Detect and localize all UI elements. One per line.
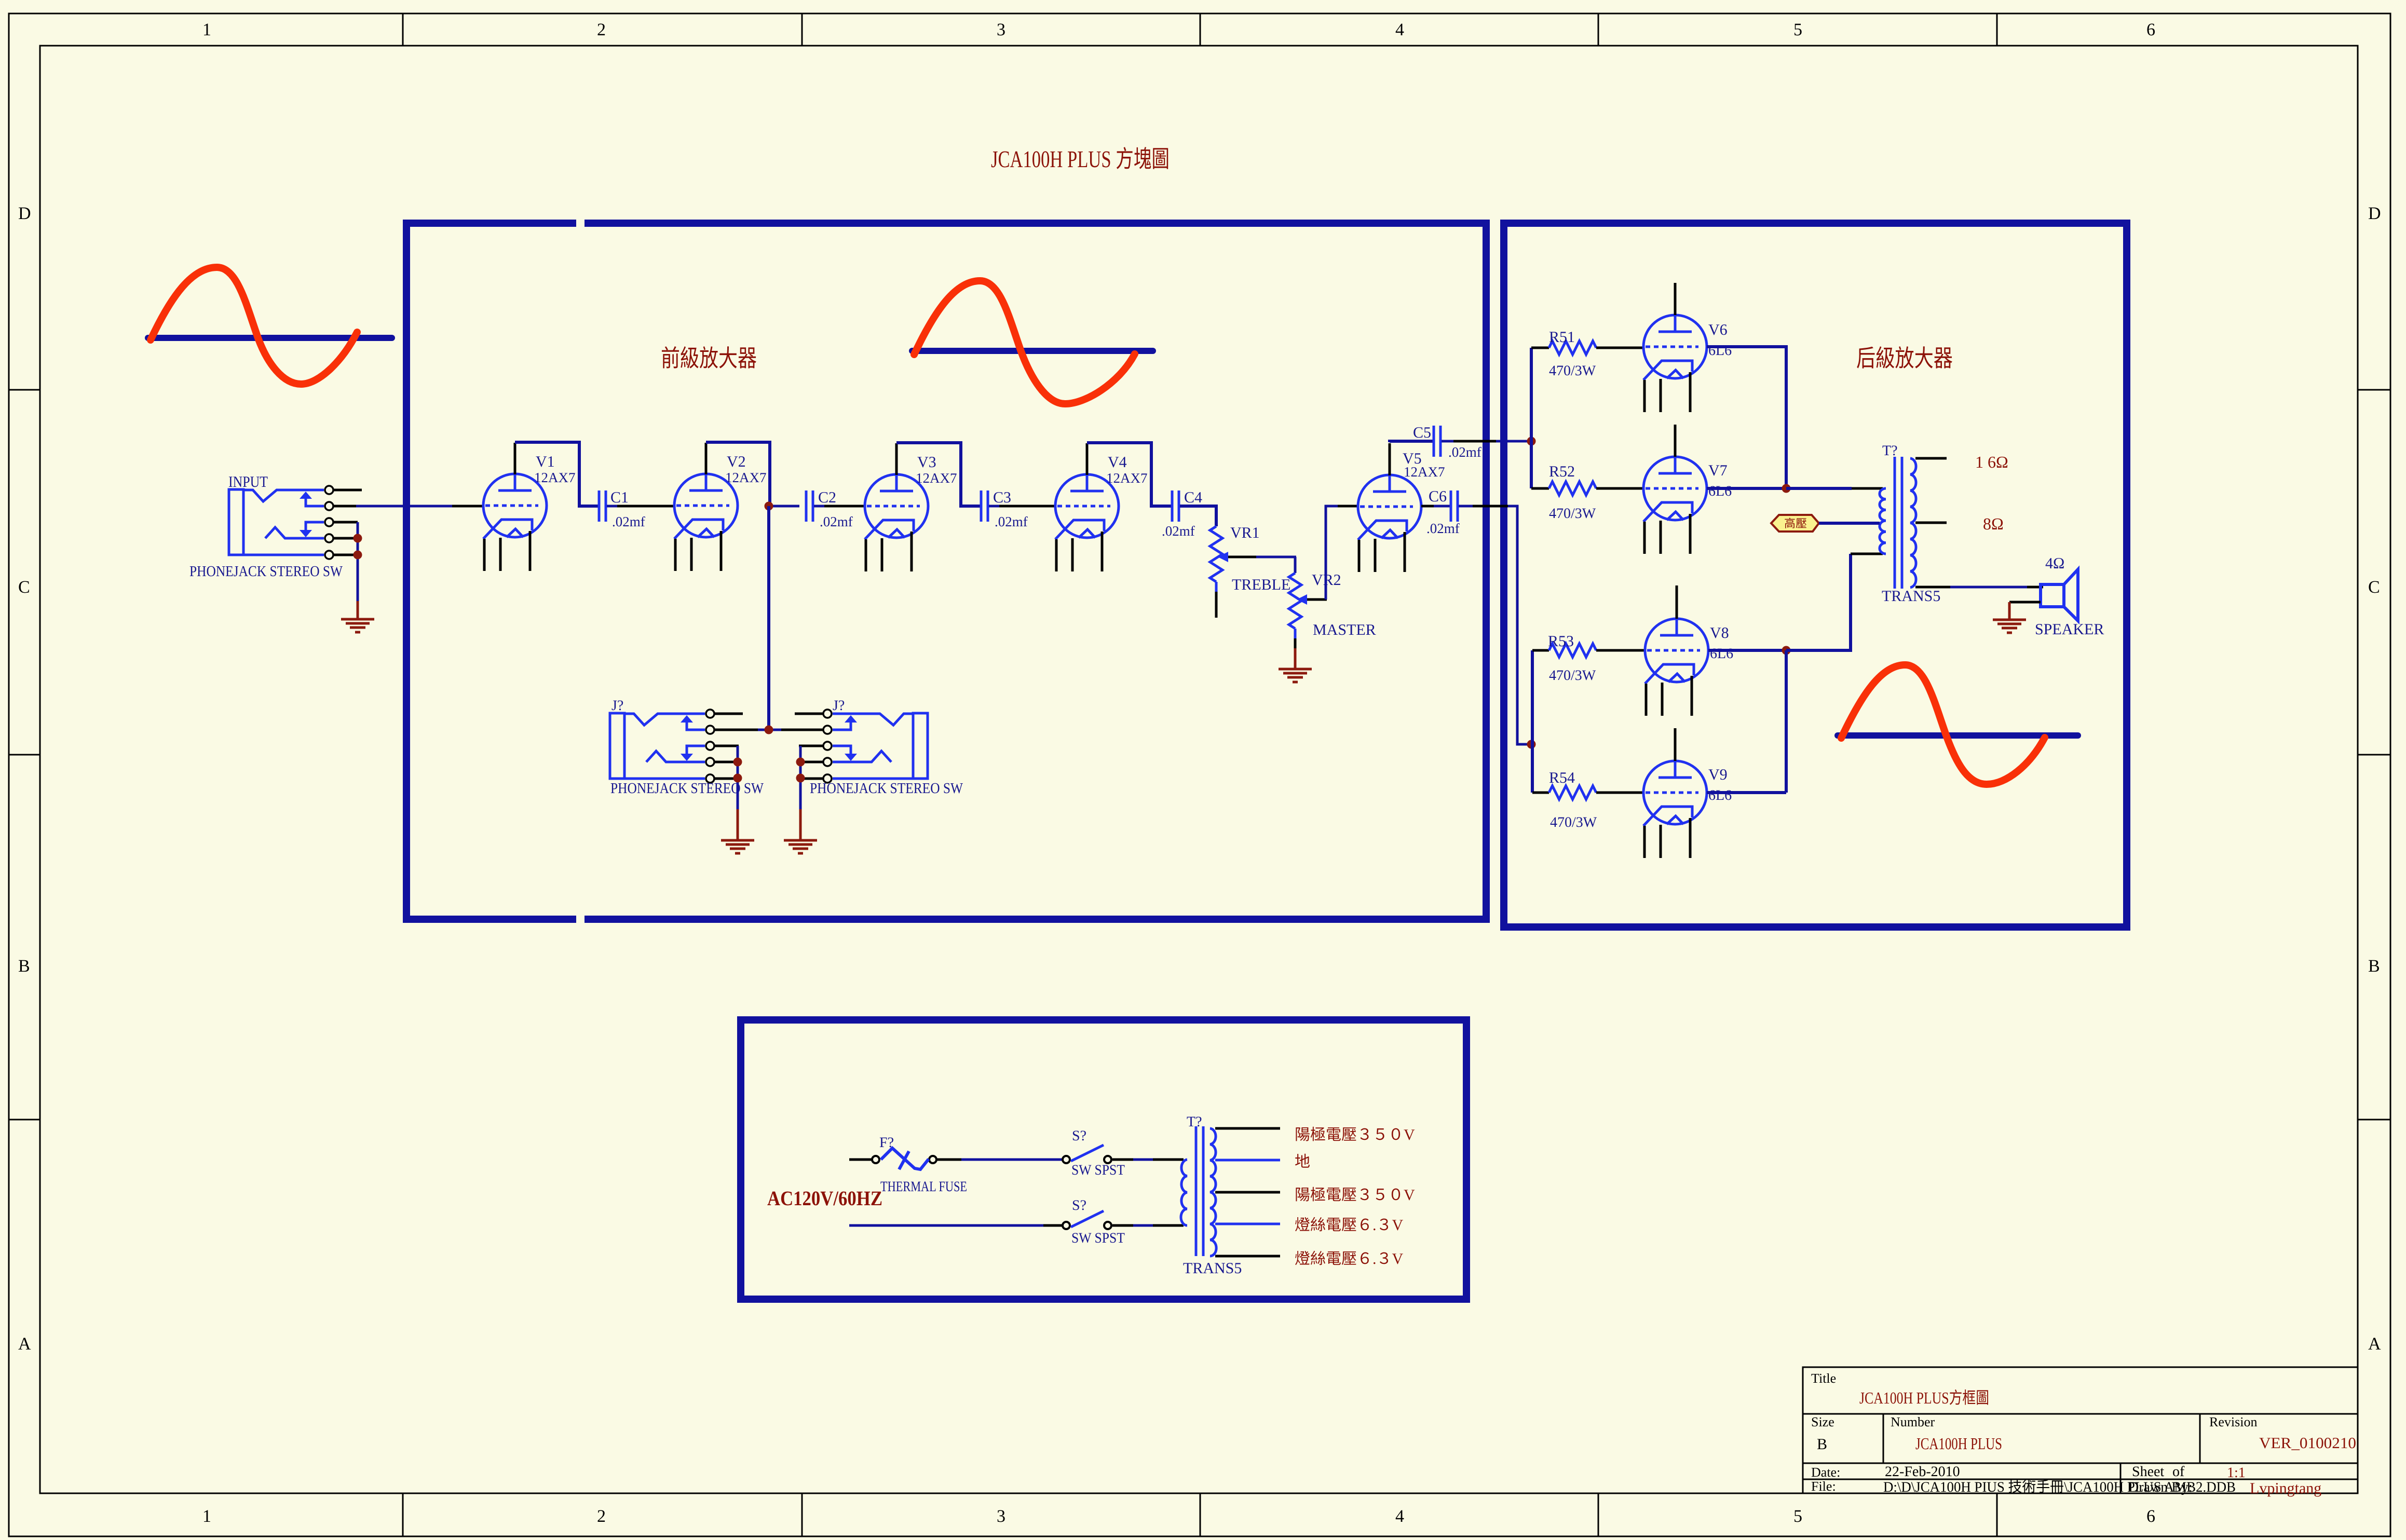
- triode V5 12AX7: [1358, 475, 1421, 572]
- svg-text:470/3W: 470/3W: [1549, 506, 1596, 522]
- V9 plate stub: [1674, 728, 1677, 761]
- svg-text:PHONEJACK STEREO SW: PHONEJACK STEREO SW: [610, 780, 764, 797]
- V6 plate stub: [1674, 283, 1677, 315]
- pentode V6 6L6: [1643, 315, 1707, 412]
- wire V3 plate to C3: [895, 443, 898, 475]
- frame row letters: [18, 204, 2381, 1354]
- svg-text:4: 4: [1395, 1507, 1404, 1526]
- svg-text:THERMAL FUSE: THERMAL FUSE: [880, 1179, 967, 1195]
- secondary tap 16 ohm: [1915, 457, 1947, 460]
- svg-text:JCA100H PLUS 方塊圖: JCA100H PLUS 方塊圖: [991, 146, 1170, 172]
- wire V9 to junction: [1707, 791, 1786, 794]
- resistor R52 470/3W: [1531, 487, 1549, 490]
- svg-text:Lvpingtang: Lvpingtang: [2250, 1480, 2321, 1497]
- svg-text:C4: C4: [1184, 489, 1202, 506]
- svg-text:1 6Ω: 1 6Ω: [1975, 453, 2008, 471]
- wire fuse to switch S1: [936, 1159, 961, 1161]
- svg-text:C: C: [18, 578, 30, 597]
- svg-text:12AX7: 12AX7: [1106, 470, 1148, 486]
- svg-text:Drawn By:: Drawn By:: [2128, 1479, 2193, 1495]
- triode V3 12AX7: [865, 474, 928, 571]
- svg-text:470/3W: 470/3W: [1549, 363, 1596, 379]
- pentode V8 6L6: [1645, 619, 1708, 716]
- sine wave 3 baseline: [1838, 732, 2078, 739]
- svg-text:12AX7: 12AX7: [725, 470, 767, 485]
- capacitor C4 .02mf: [1172, 490, 1179, 522]
- capacitor C3 .02mf: [981, 490, 988, 522]
- wire node to R51 and R52: [1530, 348, 1533, 488]
- svg-text:C: C: [2368, 578, 2380, 597]
- svg-text:V6: V6: [1708, 321, 1728, 338]
- wire V1 plate to C1: [514, 443, 516, 474]
- svg-text:陽極電壓３５０V: 陽極電壓３５０V: [1295, 1126, 1415, 1143]
- svg-text:AC120V/60HZ: AC120V/60HZ: [767, 1187, 882, 1210]
- svg-text:地: 地: [1295, 1153, 1310, 1170]
- svg-text:TRANS5: TRANS5: [1882, 588, 1940, 605]
- svg-text:2: 2: [597, 20, 606, 39]
- wire V5 plate to C5: [1389, 443, 1391, 475]
- svg-text:VER_0100210: VER_0100210: [2259, 1435, 2356, 1452]
- svg-text:MASTER: MASTER: [1313, 621, 1376, 638]
- output transformer primary winding: [1880, 488, 1886, 554]
- wire junction down to effects loop jacks: [767, 506, 770, 730]
- input jack J? INPUT: [229, 486, 362, 559]
- svg-text:470/3W: 470/3W: [1549, 667, 1596, 684]
- svg-text:5: 5: [1793, 1507, 1802, 1526]
- svg-text:Size: Size: [1811, 1414, 1834, 1429]
- ground (left effects jack): [721, 840, 754, 853]
- svg-text:R52: R52: [1549, 463, 1575, 480]
- power transformer primary winding: [1181, 1160, 1187, 1225]
- wire jack to V1 grid: [356, 505, 452, 508]
- wire speaker to ground: [2009, 601, 2041, 604]
- wire V7 to transformer primary top: [1707, 487, 1786, 490]
- svg-text:T?: T?: [1187, 1114, 1202, 1130]
- resistor R51 470/3W: [1531, 347, 1549, 349]
- svg-text:高壓: 高壓: [1784, 517, 1807, 530]
- effects loop jack J? (left): [610, 710, 743, 783]
- switch S? SW SPST (top): [1063, 1156, 1070, 1163]
- wire C1 to V2 grid: [607, 505, 617, 508]
- sine wave 1 baseline: [148, 335, 392, 341]
- ground (speaker): [1993, 620, 2026, 633]
- svg-text:TREBLE: TREBLE: [1232, 576, 1290, 593]
- sine wave 3: [1841, 665, 2045, 784]
- svg-text:INPUT: INPUT: [228, 473, 268, 490]
- wire C3 to V4 grid: [989, 505, 999, 508]
- junction dots input jack: [354, 534, 362, 543]
- ground (VR2): [1279, 669, 1312, 682]
- svg-text:.02mf: .02mf: [1162, 523, 1195, 539]
- capacitor C6 .02mf: [1451, 490, 1458, 522]
- svg-text:C5: C5: [1413, 424, 1431, 441]
- svg-text:1: 1: [202, 20, 211, 39]
- svg-text:陽極電壓３５０V: 陽極電壓３５０V: [1295, 1187, 1415, 1204]
- svg-text:Number: Number: [1891, 1414, 1935, 1429]
- output transformer T? TRANS5 core: [1895, 457, 1902, 589]
- svg-text:燈絲電壓６.３V: 燈絲電壓６.３V: [1295, 1217, 1403, 1234]
- svg-text:Sheet: Sheet: [2132, 1464, 2164, 1480]
- wire C5 to R51/R52 node: [1442, 440, 1453, 443]
- svg-text:Date:: Date:: [1811, 1465, 1840, 1480]
- svg-text:12AX7: 12AX7: [916, 470, 957, 486]
- wire V8 to transformer primary bottom: [1708, 649, 1786, 652]
- svg-text:C2: C2: [818, 489, 836, 506]
- AC neutral wire to switch S2: [849, 1224, 1043, 1227]
- node junction at C2: [765, 502, 773, 511]
- wire C2 to V3 grid: [814, 505, 824, 508]
- node middle jacks junction: [765, 726, 773, 734]
- power transformer secondary winding: [1210, 1128, 1216, 1256]
- svg-text:A: A: [18, 1334, 31, 1354]
- thermal fuse F?: [872, 1156, 879, 1163]
- svg-text:B: B: [1817, 1436, 1827, 1453]
- node C5 junction: [1527, 437, 1536, 446]
- wire left jack to middle junction: [737, 729, 758, 731]
- ground (input jack): [357, 601, 359, 618]
- svg-text:.02mf: .02mf: [995, 514, 1028, 529]
- svg-text:V3: V3: [917, 454, 936, 471]
- pentode V9 6L6: [1643, 761, 1707, 858]
- node junction dots left jack: [733, 758, 742, 767]
- triode V1 12AX7: [483, 474, 547, 571]
- svg-text:燈絲電壓６.３V: 燈絲電壓６.３V: [1295, 1250, 1403, 1268]
- svg-text:PHONEJACK STEREO SW: PHONEJACK STEREO SW: [810, 780, 963, 797]
- preamp block box: [406, 223, 1486, 919]
- svg-text:5: 5: [1793, 20, 1802, 39]
- svg-text:S?: S?: [1072, 1128, 1086, 1144]
- wire V5 grid to C6: [1421, 505, 1434, 508]
- svg-text:F?: F?: [879, 1135, 894, 1151]
- svg-text:V8: V8: [1710, 624, 1729, 642]
- svg-text:6: 6: [2146, 20, 2155, 39]
- svg-text:R54: R54: [1549, 769, 1575, 786]
- svg-text:C6: C6: [1429, 488, 1447, 505]
- power supply block box: [741, 1020, 1466, 1299]
- wire V2 plate to C2 junction: [705, 443, 708, 474]
- svg-text:SW SPST: SW SPST: [1071, 1162, 1125, 1178]
- svg-text:SW SPST: SW SPST: [1071, 1230, 1125, 1246]
- svg-text:J?: J?: [833, 698, 845, 714]
- VR2 bottom to ground: [1294, 629, 1297, 638]
- VR1 lower stub: [1215, 582, 1218, 592]
- V7 plate stub: [1674, 425, 1677, 457]
- svg-text:6L6: 6L6: [1708, 343, 1732, 359]
- svg-text:.02mf: .02mf: [1426, 521, 1460, 536]
- node R53/R54 junction: [1527, 740, 1536, 749]
- power transformer T? TRANS5 core: [1196, 1126, 1203, 1256]
- svg-text:.02mf: .02mf: [820, 514, 853, 529]
- potentiometer VR2 MASTER: [1289, 573, 1301, 629]
- speaker SPEAKER: [2041, 569, 2078, 621]
- svg-text:D: D: [18, 204, 31, 223]
- svg-text:1: 1: [202, 1507, 211, 1526]
- frame column numbers: [202, 20, 2155, 1526]
- secondary tap 6.3V: [1215, 1223, 1280, 1225]
- svg-text:8Ω: 8Ω: [1983, 514, 2004, 533]
- svg-text:3: 3: [997, 1507, 1005, 1526]
- wire AC line to fuse: [849, 1159, 872, 1161]
- node V8/V9 junction: [1782, 646, 1791, 655]
- wire input jack pin3 to ground: [357, 522, 359, 601]
- triode V4 12AX7: [1055, 474, 1119, 571]
- svg-text:B: B: [18, 957, 30, 976]
- capacitor C2 .02mf: [806, 490, 813, 522]
- svg-text:470/3W: 470/3W: [1550, 814, 1597, 830]
- wire C4 to VR1: [1180, 506, 1216, 526]
- node V6/V7 junction: [1782, 484, 1791, 493]
- svg-text:V7: V7: [1708, 462, 1728, 479]
- sine wave 2: [914, 281, 1135, 404]
- potentiometer VR1 TREBLE: [1210, 526, 1222, 582]
- svg-text:4: 4: [1395, 20, 1404, 39]
- svg-text:D: D: [2368, 204, 2381, 223]
- svg-text:SPEAKER: SPEAKER: [2035, 621, 2104, 638]
- svg-text:File:: File:: [1811, 1479, 1836, 1494]
- effects loop jack J? (right, mirrored): [795, 710, 928, 783]
- wire S1 to transformer: [1112, 1159, 1133, 1161]
- svg-text:R53: R53: [1548, 633, 1574, 650]
- output transformer secondary winding: [1910, 458, 1916, 588]
- svg-text:6L6: 6L6: [1710, 646, 1733, 662]
- svg-text:Revision: Revision: [2209, 1414, 2257, 1429]
- V8 plate stub: [1676, 585, 1678, 619]
- svg-text:TRANS5: TRANS5: [1183, 1260, 1242, 1277]
- svg-text:12AX7: 12AX7: [1404, 464, 1445, 480]
- svg-text:B: B: [2368, 957, 2380, 976]
- sine wave 1: [151, 267, 357, 384]
- svg-text:VR1: VR1: [1230, 524, 1260, 541]
- svg-text:12AX7: 12AX7: [534, 470, 576, 485]
- svg-text:V4: V4: [1108, 454, 1127, 471]
- wire V6 to V7 node: [1707, 347, 1786, 488]
- svg-text:JCA100H PLUS: JCA100H PLUS: [1915, 1434, 2002, 1453]
- svg-text:of: of: [2172, 1464, 2185, 1480]
- svg-text:前級放大器: 前級放大器: [661, 345, 757, 372]
- svg-text:2: 2: [597, 1507, 606, 1526]
- svg-text:22-Feb-2010: 22-Feb-2010: [1885, 1464, 1960, 1480]
- node junction dots right jack: [796, 758, 805, 767]
- svg-text:6L6: 6L6: [1708, 787, 1732, 803]
- secondary tap 350V (top): [1215, 1127, 1280, 1130]
- svg-text:后級放大器: 后級放大器: [1856, 345, 1953, 372]
- wire junction down to V9: [1785, 650, 1788, 793]
- capacitor C5 .02mf: [1434, 426, 1440, 457]
- svg-text:6L6: 6L6: [1708, 483, 1732, 499]
- svg-text:R51: R51: [1549, 329, 1575, 346]
- svg-text:6: 6: [2146, 1507, 2155, 1526]
- svg-text:3: 3: [997, 20, 1005, 39]
- wire VR2 wiper to V5 grid: [1326, 506, 1338, 599]
- svg-text:A: A: [2368, 1334, 2381, 1354]
- resistor R54 470/3W: [1532, 792, 1549, 794]
- svg-text:V2: V2: [727, 453, 746, 470]
- svg-text:Title: Title: [1811, 1371, 1836, 1386]
- svg-text:.02mf: .02mf: [612, 514, 645, 529]
- wire C6 down to R53/R54 node: [1459, 505, 1473, 508]
- svg-text:C1: C1: [610, 489, 629, 506]
- power port 高壓: [1771, 515, 1819, 531]
- secondary tap 6.3V (bottom): [1215, 1255, 1280, 1258]
- svg-text:PHONEJACK STEREO SW: PHONEJACK STEREO SW: [189, 563, 343, 580]
- sine wave 2 baseline: [912, 348, 1153, 354]
- wire VR1 wiper to VR2: [1294, 557, 1297, 573]
- wire V4 plate to C4: [1086, 443, 1089, 475]
- secondary tap 8 ohm: [1915, 522, 1947, 524]
- svg-text:J?: J?: [611, 698, 623, 714]
- svg-text:S?: S?: [1072, 1197, 1086, 1214]
- svg-text:JCA100H PLUS方框圖: JCA100H PLUS方框圖: [1859, 1388, 1989, 1407]
- wire left jack pin3 to ground: [737, 746, 739, 809]
- svg-text:1:1: 1:1: [2227, 1465, 2246, 1481]
- svg-text:V1: V1: [536, 453, 555, 470]
- switch S? SW SPST (bottom): [1063, 1222, 1070, 1229]
- svg-text:4Ω: 4Ω: [2045, 555, 2064, 572]
- svg-text:C3: C3: [993, 489, 1011, 506]
- wire right jack pin3 to ground: [799, 746, 802, 809]
- ground (right effects jack): [784, 840, 817, 853]
- svg-text:.02mf: .02mf: [1448, 444, 1481, 460]
- capacitor C1 .02mf: [599, 490, 606, 522]
- resistor R53 470/3W: [1532, 649, 1549, 652]
- secondary tap ground 地: [1215, 1159, 1280, 1162]
- wire S2 to transformer: [1112, 1224, 1133, 1227]
- svg-text:T?: T?: [1882, 443, 1898, 459]
- power amp block box: [1504, 223, 2127, 927]
- secondary tap 4 ohm wire to speaker: [1915, 586, 1950, 589]
- triode V2 12AX7: [674, 474, 738, 571]
- pentode V7 6L6: [1643, 457, 1707, 554]
- title block: [1803, 1367, 2358, 1493]
- secondary tap 350V (mid): [1215, 1191, 1280, 1194]
- svg-text:V9: V9: [1708, 766, 1728, 783]
